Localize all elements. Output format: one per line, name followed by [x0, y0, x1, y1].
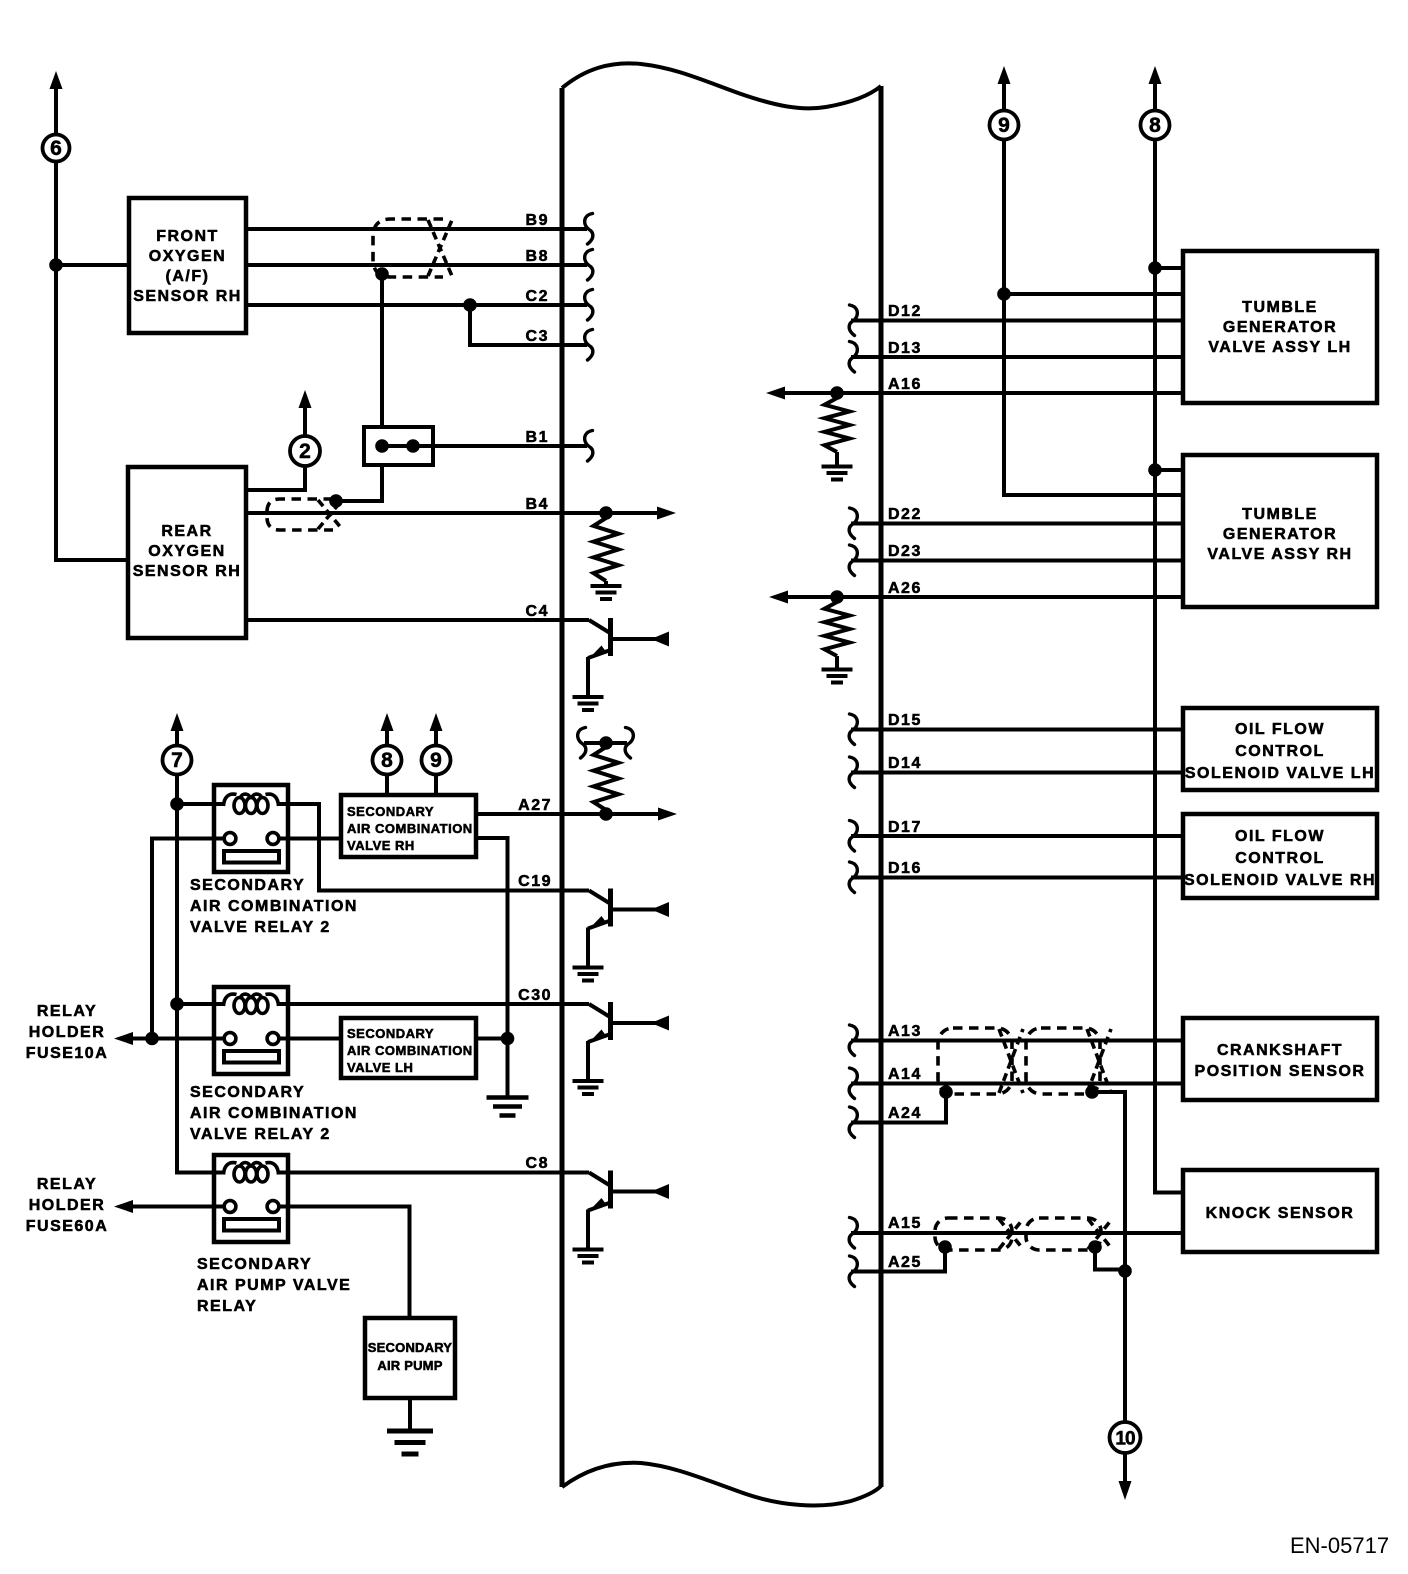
- wire A24: [851, 1092, 946, 1123]
- svg-text:C8: C8: [526, 1155, 549, 1172]
- svg-text:A16: A16: [888, 376, 922, 393]
- junction ground rail: [501, 1032, 515, 1046]
- wire node9 to tumble LH pin2: [1004, 292, 1183, 296]
- wire D16: [851, 876, 1183, 880]
- wire A13: [851, 1039, 1183, 1043]
- connector squiggle D15: [849, 714, 857, 745]
- wire node9 stub: [434, 775, 438, 797]
- shielded twisted pair A13/A14 (1): [938, 1028, 1012, 1094]
- connector squiggle C3: [585, 330, 593, 361]
- svg-text:D16: D16: [888, 860, 922, 877]
- svg-text:AIR COMBINATION: AIR COMBINATION: [190, 898, 358, 915]
- wire node8 to tumble RH pin1: [1155, 468, 1183, 472]
- svg-text:A26: A26: [888, 580, 922, 597]
- wire A27 from valve RH: [476, 812, 606, 816]
- svg-text:SOLENOID VALVE RH: SOLENOID VALVE RH: [1184, 872, 1376, 889]
- wire C30 from relay2 coil: [277, 1002, 562, 1006]
- wire C2: [246, 303, 587, 307]
- wire A16: [776, 391, 1183, 395]
- svg-text:B4: B4: [526, 496, 549, 513]
- wire B1: [382, 444, 587, 448]
- svg-text:CONTROL: CONTROL: [1235, 850, 1325, 867]
- junction B4 shield drain: [329, 494, 343, 508]
- arrow up node 6: [50, 71, 63, 89]
- svg-text:7: 7: [171, 749, 183, 772]
- svg-text:OIL FLOW: OIL FLOW: [1235, 828, 1325, 845]
- svg-text:B8: B8: [526, 248, 549, 265]
- connector squiggle D17: [849, 821, 857, 852]
- svg-text:2: 2: [299, 440, 311, 463]
- relay SECONDARY-AIR-COMBINATION-VALVE-RELAY-2 (upper): [214, 785, 288, 872]
- wire D22: [851, 522, 1183, 526]
- wire B4: [246, 511, 606, 515]
- arrow up node 8 right: [1149, 66, 1162, 84]
- junction node10 rail: [1118, 1264, 1132, 1278]
- junction shield B9B8 drain: [375, 267, 389, 281]
- svg-text:B9: B9: [526, 212, 549, 229]
- wire A25: [851, 1247, 945, 1272]
- svg-text:A13: A13: [888, 1023, 922, 1040]
- wire relay1 contact right: [279, 837, 341, 841]
- circled number 10: [1110, 1422, 1141, 1453]
- wire node8 stub: [385, 775, 389, 797]
- wire node7 rail: [177, 775, 225, 1173]
- svg-text:8: 8: [1149, 114, 1161, 137]
- connector squiggle D12: [849, 305, 857, 336]
- svg-text:VALVE RELAY 2: VALVE RELAY 2: [190, 919, 331, 936]
- junction A15 shield left: [938, 1240, 952, 1254]
- svg-text:CRANKSHAFT: CRANKSHAFT: [1217, 1042, 1343, 1059]
- svg-text:SENSOR RH: SENSOR RH: [133, 563, 242, 580]
- wire node7 to relay1 coil: [177, 802, 225, 806]
- junction node8 tumble LH: [1148, 261, 1162, 275]
- wire resistor to ground: [604, 581, 608, 585]
- connector squiggle B1: [585, 431, 593, 462]
- svg-text:RELAY: RELAY: [197, 1298, 257, 1315]
- secondary air combination valve RH box: [341, 795, 476, 857]
- svg-text:OXYGEN: OXYGEN: [148, 543, 225, 560]
- wire node10 to arrow: [1123, 1453, 1127, 1481]
- junction node7 relay2: [170, 997, 184, 1011]
- connector squiggle A25: [849, 1256, 857, 1287]
- svg-text:EN-05717: EN-05717: [1290, 1533, 1389, 1558]
- junction A26 resistor: [830, 590, 844, 604]
- wire D14: [851, 771, 1183, 775]
- arrow down node 10: [1119, 1481, 1132, 1500]
- svg-text:AIR COMBINATION: AIR COMBINATION: [347, 821, 473, 836]
- svg-text:CONTROL: CONTROL: [1235, 743, 1325, 760]
- junction node7 relay1: [170, 797, 184, 811]
- wire C2 to C3 jog: [470, 305, 587, 345]
- svg-text:TUMBLE: TUMBLE: [1242, 506, 1318, 523]
- svg-text:A27: A27: [518, 797, 552, 814]
- arrow up node 2: [299, 390, 312, 408]
- svg-text:A15: A15: [888, 1215, 922, 1232]
- svg-text:C3: C3: [526, 328, 549, 345]
- svg-text:AIR PUMP VALVE: AIR PUMP VALVE: [197, 1277, 351, 1294]
- connector squiggle A13: [849, 1025, 857, 1056]
- svg-text:D13: D13: [888, 340, 922, 357]
- connector squiggle A24: [849, 1107, 857, 1138]
- wire D13: [851, 355, 1183, 359]
- shielded wire A15 (2): [1026, 1218, 1101, 1250]
- svg-text:10: 10: [1115, 1429, 1135, 1450]
- ground A16 resistor: [822, 465, 853, 469]
- svg-text:FUSE10A: FUSE10A: [26, 1045, 109, 1062]
- wire node8 rail: [1155, 140, 1183, 1193]
- connector squiggle D22: [849, 508, 857, 539]
- svg-text:VALVE ASSY LH: VALVE ASSY LH: [1208, 339, 1351, 356]
- connector squiggle D23: [849, 545, 857, 576]
- svg-text:VALVE LH: VALVE LH: [347, 1060, 413, 1075]
- ECM torn-edge bottom wave (wire): [562, 1463, 881, 1506]
- wire relay3 contact right: [279, 1207, 410, 1319]
- ground B4 resistor: [591, 584, 622, 588]
- wire node9 rail: [1004, 140, 1183, 496]
- connector squiggle B9: [585, 214, 593, 245]
- svg-text:C30: C30: [518, 987, 552, 1004]
- ground A26 resistor: [822, 668, 853, 672]
- svg-text:SECONDARY: SECONDARY: [347, 1026, 434, 1041]
- svg-text:POSITION SENSOR: POSITION SENSOR: [1195, 1063, 1366, 1080]
- connector box B1 junction: [364, 427, 433, 465]
- svg-text:SECONDARY: SECONDARY: [190, 877, 305, 894]
- svg-text:9: 9: [430, 749, 442, 772]
- arrow left relay holder FUSE60A: [114, 1200, 133, 1213]
- junction A27 pullup top: [599, 736, 613, 750]
- svg-text:AIR COMBINATION: AIR COMBINATION: [347, 1043, 473, 1058]
- svg-text:VALVE ASSY RH: VALVE ASSY RH: [1207, 546, 1352, 563]
- svg-text:9: 9: [998, 114, 1010, 137]
- shielded wire A15 (1): [935, 1218, 1012, 1250]
- svg-text:SECONDARY: SECONDARY: [197, 1256, 312, 1273]
- wire pump to ground: [408, 1398, 412, 1430]
- svg-text:TUMBLE: TUMBLE: [1242, 299, 1318, 316]
- arrow left A16: [766, 387, 785, 400]
- connector squiggle B8: [585, 250, 593, 281]
- secondary air pump box: [365, 1318, 455, 1398]
- svg-text:B1: B1: [526, 429, 549, 446]
- svg-text:SOLENOID VALVE LH: SOLENOID VALVE LH: [1185, 765, 1375, 782]
- transistor C8 driver: [562, 1171, 669, 1263]
- wire B4 shield drain to B1: [336, 465, 382, 501]
- wire shield drain down to B1 box: [380, 274, 384, 428]
- junction fuse10a rail: [145, 1032, 159, 1046]
- wire relay2 contact right: [279, 1037, 341, 1041]
- circled number 8 right: [1141, 111, 1170, 140]
- svg-text:GENERATOR: GENERATOR: [1223, 526, 1337, 543]
- junction node9 tumble LH: [997, 287, 1011, 301]
- svg-text:FUSE60A: FUSE60A: [26, 1218, 109, 1235]
- wire shield A14 to node10 rail: [1092, 1092, 1125, 1423]
- svg-text:RELAY: RELAY: [37, 1003, 97, 1020]
- svg-text:SENSOR RH: SENSOR RH: [133, 288, 242, 305]
- svg-text:A25: A25: [888, 1254, 922, 1271]
- arrow left relay holder FUSE10A: [114, 1032, 133, 1045]
- pull-up hooks A27: [578, 728, 586, 759]
- wire A14: [851, 1082, 1183, 1086]
- resistor A26 pulldown: [825, 602, 850, 656]
- wire node7 to relay2 coil: [177, 1002, 225, 1006]
- transistor C30 driver: [562, 1002, 669, 1094]
- svg-text:A24: A24: [888, 1105, 922, 1122]
- junction A15 shield right: [1088, 1240, 1102, 1254]
- junction C2/C3: [463, 298, 477, 312]
- front oxygen sensor FRONT-OXYGEN-(A/F)-SENSOR-RH: [129, 198, 246, 333]
- relay SECONDARY-AIR-PUMP-VALVE-RELAY: [214, 1155, 288, 1242]
- ECM connector right edge (wire): [879, 86, 884, 1487]
- svg-text:HOLDER: HOLDER: [29, 1197, 106, 1214]
- arrow up node 7: [171, 713, 184, 731]
- svg-text:8: 8: [381, 749, 393, 772]
- knock sensor box: [1183, 1170, 1377, 1252]
- tumble generator valve assy LH box: [1183, 251, 1377, 403]
- connector squiggle D14: [849, 757, 857, 788]
- wire A15: [851, 1231, 1183, 1235]
- wire B4 internal arrow: [606, 511, 658, 515]
- wire node8 to tumble LH pin1: [1155, 266, 1183, 270]
- circled number 2: [290, 436, 320, 466]
- svg-text:C4: C4: [526, 603, 549, 620]
- svg-text:D17: D17: [888, 819, 922, 836]
- crankshaft position sensor box: [1183, 1018, 1377, 1100]
- wire D12: [851, 319, 1183, 323]
- wire valve RH to ground rail: [476, 838, 508, 1097]
- resistor A27 pullup: [594, 747, 619, 810]
- arrow up node 9 left: [430, 713, 443, 731]
- svg-text:GENERATOR: GENERATOR: [1223, 319, 1337, 336]
- wire B9: [246, 227, 587, 231]
- svg-text:VALVE RH: VALVE RH: [347, 838, 415, 853]
- secondary air combination valve LH box: [341, 1018, 476, 1078]
- ECM torn-edge top wave (wire): [562, 63, 881, 108]
- junction A14 shield left: [939, 1085, 953, 1099]
- wire D23: [851, 559, 1183, 563]
- svg-text:D12: D12: [888, 303, 922, 320]
- junction on node6 wire: [49, 258, 63, 272]
- svg-text:SECONDARY: SECONDARY: [368, 1340, 453, 1355]
- svg-text:AIR PUMP: AIR PUMP: [377, 1358, 442, 1373]
- connector squiggle A15: [849, 1218, 857, 1249]
- wire C8 from relay3 coil: [277, 1171, 562, 1175]
- junction node8 tumble RH: [1148, 463, 1162, 477]
- shielded wire B4: [267, 499, 333, 530]
- ground secondary air pump: [387, 1429, 433, 1434]
- arrow left A26: [769, 591, 788, 604]
- transistor C4 driver: [562, 618, 669, 710]
- svg-text:C2: C2: [526, 288, 549, 305]
- svg-text:6: 6: [50, 137, 62, 160]
- svg-text:REAR: REAR: [161, 523, 212, 540]
- svg-text:SECONDARY: SECONDARY: [190, 1084, 305, 1101]
- resistor B4 pulldown: [594, 518, 619, 581]
- shielded twisted pair B9/B8: [373, 219, 443, 277]
- wire node6 vertical: [56, 162, 128, 560]
- svg-text:AIR COMBINATION: AIR COMBINATION: [190, 1105, 358, 1122]
- svg-text:OXYGEN: OXYGEN: [149, 248, 226, 265]
- junction A14 shield right: [1085, 1085, 1099, 1099]
- oil flow control solenoid valve RH box: [1183, 814, 1377, 898]
- svg-text:D22: D22: [888, 506, 922, 523]
- wire rear sensor to node 2: [246, 466, 305, 490]
- junction A27: [599, 807, 613, 821]
- wire D17: [851, 834, 1183, 838]
- svg-text:KNOCK SENSOR: KNOCK SENSOR: [1206, 1205, 1355, 1222]
- wire relay1 contact left: [152, 839, 225, 1039]
- svg-text:D14: D14: [888, 755, 922, 772]
- resistor A16 pulldown: [825, 398, 850, 452]
- junction B4 internal: [599, 506, 613, 520]
- junction B1 left: [375, 439, 389, 453]
- circled number 8 left: [373, 746, 402, 775]
- connector squiggle C2: [585, 290, 593, 321]
- svg-text:VALVE RELAY 2: VALVE RELAY 2: [190, 1126, 331, 1143]
- svg-text:D15: D15: [888, 712, 922, 729]
- svg-text:OIL FLOW: OIL FLOW: [1235, 721, 1325, 738]
- svg-text:(A/F): (A/F): [166, 268, 210, 285]
- oil flow control solenoid valve LH box: [1183, 708, 1377, 790]
- svg-text:FRONT: FRONT: [156, 228, 219, 245]
- circled number 7: [163, 746, 192, 775]
- svg-text:A14: A14: [888, 1066, 922, 1083]
- svg-text:HOLDER: HOLDER: [29, 1024, 106, 1041]
- wire C4: [246, 618, 562, 622]
- wire A27 arrow: [606, 812, 659, 816]
- tumble generator valve assy RH box: [1183, 455, 1377, 607]
- arrow up node 9 right: [998, 66, 1011, 84]
- circled number 6: [43, 135, 70, 162]
- transistor C19 driver: [562, 889, 669, 981]
- ECM connector left edge (wire): [560, 88, 565, 1487]
- relay SECONDARY-AIR-COMBINATION-VALVE-RELAY-2 (lower): [214, 987, 288, 1074]
- circled number 9 right: [990, 111, 1019, 140]
- circled number 9 left: [422, 746, 451, 775]
- wire valve LH to ground rail: [476, 1037, 508, 1041]
- ground valve rail: [487, 1095, 529, 1100]
- junction B1 right: [406, 439, 420, 453]
- wire B8: [246, 263, 587, 267]
- shielded twisted pair A13/A14 (2): [1026, 1028, 1100, 1094]
- wire node6 to front sensor: [56, 263, 129, 267]
- svg-text:SECONDARY: SECONDARY: [347, 804, 434, 819]
- svg-text:C19: C19: [518, 873, 552, 890]
- connector squiggle A14: [849, 1068, 857, 1099]
- svg-text:RELAY: RELAY: [37, 1176, 97, 1193]
- wire relay1 coil out: [277, 804, 562, 891]
- junction A16 resistor: [830, 386, 844, 400]
- rear oxygen sensor box REAR-OXYGEN-SENSOR-RH: [128, 467, 246, 638]
- wire A26: [779, 595, 1183, 599]
- connector squiggle D16: [849, 862, 857, 893]
- svg-text:D23: D23: [888, 543, 922, 560]
- connector squiggle D13: [849, 342, 857, 373]
- wire D15: [851, 728, 1183, 732]
- arrow up node 8 left: [381, 713, 394, 731]
- wire shield A15 to node10 rail: [1095, 1247, 1125, 1270]
